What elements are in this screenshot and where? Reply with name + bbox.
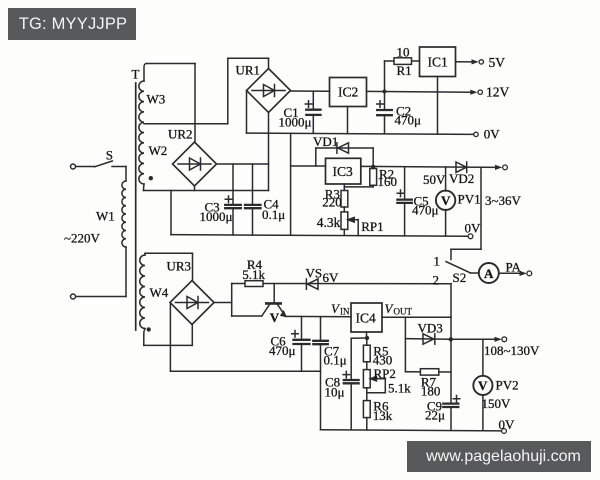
svg-text:A: A xyxy=(484,266,494,281)
svg-text:IN: IN xyxy=(340,307,350,317)
svg-text:V: V xyxy=(441,193,451,208)
svg-text:4.3k: 4.3k xyxy=(317,215,341,230)
svg-text:22μ: 22μ xyxy=(425,408,445,423)
svg-text:0V: 0V xyxy=(484,127,501,142)
svg-text:50V: 50V xyxy=(423,172,446,187)
svg-text:1: 1 xyxy=(434,254,441,269)
svg-text:S: S xyxy=(106,147,113,162)
svg-text:5.1k: 5.1k xyxy=(242,267,265,282)
svg-text:RP1: RP1 xyxy=(361,219,383,234)
svg-text:IC4: IC4 xyxy=(356,311,377,326)
svg-text:10: 10 xyxy=(397,45,410,60)
svg-text:470μ: 470μ xyxy=(395,113,422,128)
svg-text:IC3: IC3 xyxy=(333,164,354,179)
svg-text:0.1μ: 0.1μ xyxy=(262,207,285,222)
svg-text:0V: 0V xyxy=(465,221,482,236)
svg-text:W1: W1 xyxy=(96,209,115,224)
svg-text:5V: 5V xyxy=(489,55,506,70)
svg-text:VS: VS xyxy=(306,266,323,281)
svg-text:0V: 0V xyxy=(499,417,516,432)
svg-text:UR2: UR2 xyxy=(168,127,193,142)
svg-text:220: 220 xyxy=(322,195,342,210)
svg-text:T: T xyxy=(132,67,140,82)
svg-text:UR1: UR1 xyxy=(236,63,261,78)
svg-text:V: V xyxy=(270,310,280,325)
svg-text:IC1: IC1 xyxy=(428,55,448,70)
svg-text:PV2: PV2 xyxy=(496,378,519,393)
svg-text:2: 2 xyxy=(433,273,440,288)
svg-text:160: 160 xyxy=(378,174,398,189)
svg-text:PA: PA xyxy=(506,260,522,275)
svg-text:108~130V: 108~130V xyxy=(484,343,540,358)
svg-text:VD2: VD2 xyxy=(449,171,474,186)
svg-text:1000μ: 1000μ xyxy=(200,209,233,224)
svg-text:470μ: 470μ xyxy=(269,343,296,358)
svg-text:VD1: VD1 xyxy=(313,134,338,149)
svg-text:12V: 12V xyxy=(486,84,510,99)
svg-text:180: 180 xyxy=(421,384,441,399)
svg-text:6V: 6V xyxy=(323,270,340,285)
svg-text:W3: W3 xyxy=(147,92,166,107)
svg-text:S2: S2 xyxy=(453,270,467,285)
svg-text:RP2: RP2 xyxy=(374,366,396,381)
svg-text:5.1k: 5.1k xyxy=(388,381,411,396)
svg-text:150V: 150V xyxy=(482,396,512,411)
svg-text:IC2: IC2 xyxy=(338,85,358,100)
svg-text:470μ: 470μ xyxy=(412,203,439,218)
svg-text:UR3: UR3 xyxy=(167,259,192,274)
svg-text:~220V: ~220V xyxy=(64,231,101,246)
svg-text:R1: R1 xyxy=(397,63,412,78)
svg-text:13k: 13k xyxy=(373,408,393,423)
svg-text:1000μ: 1000μ xyxy=(279,115,312,130)
svg-text:OUT: OUT xyxy=(394,307,413,317)
svg-text:VD3: VD3 xyxy=(418,321,443,336)
svg-text:10μ: 10μ xyxy=(325,385,345,400)
svg-text:PV1: PV1 xyxy=(458,192,481,207)
svg-text:W4: W4 xyxy=(150,285,169,300)
svg-text:3~36V: 3~36V xyxy=(485,193,522,208)
svg-text:0.1μ: 0.1μ xyxy=(324,353,347,368)
svg-text:V: V xyxy=(478,378,488,393)
svg-text:W2: W2 xyxy=(149,143,168,158)
